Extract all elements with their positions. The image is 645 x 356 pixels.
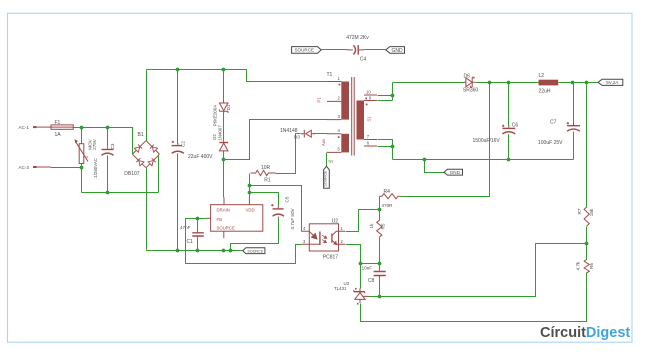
svg-text:DB107: DB107 — [124, 171, 140, 177]
svg-text:TL431: TL431 — [334, 286, 347, 291]
svg-text:SR360: SR360 — [463, 87, 479, 93]
svg-text:C3: C3 — [110, 143, 115, 149]
svg-text:T1: T1 — [327, 72, 333, 78]
svg-text:AC-1: AC-1 — [19, 125, 30, 130]
svg-text:275V: 275V — [92, 138, 97, 150]
svg-text:DRAIN: DRAIN — [217, 207, 230, 212]
svg-text:AC-3: AC-3 — [19, 165, 30, 170]
svg-text:1500uF/16V: 1500uF/16V — [473, 138, 501, 144]
svg-text:1A: 1A — [55, 132, 62, 138]
svg-text:Aux: Aux — [321, 139, 326, 146]
svg-text:R4: R4 — [384, 189, 391, 195]
svg-text:R6: R6 — [589, 263, 594, 269]
svg-text:10: 10 — [366, 89, 371, 94]
svg-text:P1: P1 — [317, 97, 322, 103]
svg-text:D3: D3 — [294, 135, 300, 140]
svg-text:22uH: 22uH — [539, 88, 551, 94]
svg-text:P6KE200A: P6KE200A — [213, 105, 218, 127]
svg-text:SOURCE: SOURCE — [217, 226, 236, 231]
svg-text:1N4148: 1N4148 — [280, 128, 298, 134]
svg-text:L2: L2 — [539, 73, 545, 79]
svg-text:SOURCE: SOURCE — [247, 249, 263, 253]
svg-text:PC817: PC817 — [323, 254, 339, 260]
svg-text:R1: R1 — [264, 178, 271, 184]
svg-text:10R: 10R — [261, 165, 271, 171]
svg-text:FB: FB — [217, 217, 223, 222]
svg-text:D6: D6 — [464, 73, 471, 79]
svg-text:C7: C7 — [550, 120, 557, 126]
svg-text:C5: C5 — [284, 196, 289, 202]
svg-text:10nF: 10nF — [362, 265, 373, 270]
svg-text:4.7k: 4.7k — [576, 261, 581, 270]
svg-text:U2: U2 — [332, 219, 339, 225]
svg-text:TR: TR — [328, 160, 333, 164]
svg-text:100uF 25V: 100uF 25V — [538, 140, 563, 146]
svg-text:C1: C1 — [187, 239, 194, 245]
svg-text:GND: GND — [392, 48, 404, 54]
svg-text:S1: S1 — [366, 116, 371, 122]
svg-text:C6: C6 — [512, 123, 519, 129]
svg-text:18k: 18k — [589, 208, 594, 216]
svg-text:VDD: VDD — [246, 207, 255, 212]
svg-text:F1: F1 — [55, 120, 61, 126]
svg-text:R7: R7 — [577, 208, 582, 214]
svg-text:1N4007: 1N4007 — [217, 125, 222, 141]
svg-text:22uF 400V: 22uF 400V — [188, 154, 213, 160]
svg-text:D2: D2 — [212, 134, 217, 140]
svg-text:472M 2Kv: 472M 2Kv — [346, 35, 369, 41]
svg-text:4.7uF 50V: 4.7uF 50V — [290, 207, 295, 229]
svg-text:R5: R5 — [381, 223, 386, 229]
svg-text:1k: 1k — [369, 223, 374, 229]
svg-text:U: U — [84, 155, 89, 158]
svg-text:GND: GND — [450, 170, 461, 175]
svg-text:5V,2A: 5V,2A — [606, 80, 619, 85]
svg-text:C8: C8 — [368, 278, 375, 284]
svg-text:SOURCE: SOURCE — [294, 48, 314, 53]
svg-text:470R: 470R — [382, 203, 394, 208]
svg-text:47nF: 47nF — [180, 225, 191, 230]
svg-text:.1/250VAC: .1/250VAC — [93, 158, 98, 179]
svg-text:D1: D1 — [226, 104, 231, 110]
svg-text:C2: C2 — [181, 141, 186, 147]
svg-text:B1: B1 — [138, 132, 144, 138]
svg-text:CírcuitDigest: CírcuitDigest — [540, 325, 630, 341]
svg-text:C4: C4 — [360, 56, 367, 62]
svg-text:SOURCE: SOURCE — [324, 170, 328, 186]
